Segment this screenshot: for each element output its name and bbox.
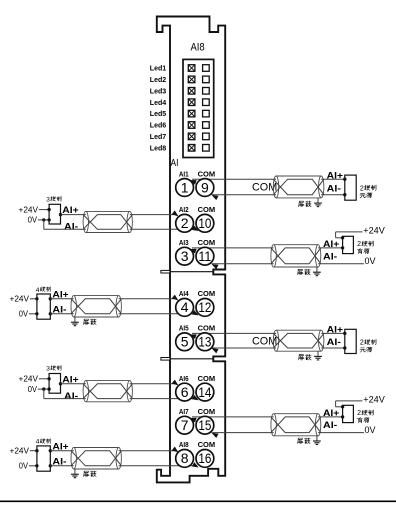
svg-text:4: 4 — [36, 439, 40, 446]
svg-text:0V: 0V — [19, 308, 28, 318]
svg-text:13: 13 — [198, 334, 211, 350]
wire terminal 9 to sensor — [212, 194, 345, 196]
wire terminal 3 to sensor AI+ — [192, 247, 343, 249]
arrowhead terminal 5 — [189, 332, 196, 339]
arrowhead terminal 4 — [172, 295, 180, 303]
svg-text:10: 10 — [198, 215, 211, 231]
AI3 cable shielded twisted-pair cable symbol — [271, 245, 321, 267]
svg-text:Led2: Led2 — [150, 75, 166, 84]
svg-text:Led8: Led8 — [150, 143, 166, 152]
svg-text:0V: 0V — [28, 215, 37, 225]
arrow into terminal 12 — [192, 310, 200, 317]
label 屏蔽 — [299, 201, 304, 206]
wire AI+ to terminal 4 — [50, 298, 175, 300]
svg-text:AI+: AI+ — [327, 325, 344, 336]
wire AI- to terminal 14 — [44, 389, 196, 399]
label 4线制 — [36, 439, 51, 446]
svg-text:AI-: AI- — [64, 222, 78, 233]
svg-text:2: 2 — [357, 410, 361, 417]
svg-text:AI1: AI1 — [179, 169, 189, 178]
shield ground AI5 — [314, 351, 322, 360]
terminal 8 — [176, 450, 194, 468]
svg-text:AI5: AI5 — [179, 324, 189, 333]
arrow into terminal 5 — [189, 332, 196, 339]
wire AI- to terminal 10 — [44, 220, 196, 229]
svg-text:AI-: AI- — [323, 251, 337, 262]
wire COM terminal 5 to sensor — [192, 332, 345, 334]
2-wire passive sensor block AI5 — [343, 329, 356, 353]
svg-text:AI+: AI+ — [323, 408, 340, 419]
terminal 13 — [196, 333, 214, 351]
wire AI+ to terminal 8 — [50, 450, 175, 452]
LED3 indicator squares — [188, 88, 209, 95]
svg-text:6: 6 — [181, 384, 189, 400]
arrowhead terminal 9 — [211, 193, 219, 200]
LED2 indicator squares — [188, 76, 209, 83]
svg-text:Led5: Led5 — [150, 109, 166, 118]
AI2 cable shielded twisted-pair cable symbol — [83, 211, 132, 232]
svg-text:Led1: Led1 — [150, 64, 166, 73]
svg-text:3: 3 — [46, 366, 50, 373]
4-wire transmitter block for AI8 — [10, 445, 53, 471]
arrowhead terminal 7 — [189, 416, 196, 423]
arrowhead terminal 3 — [189, 247, 196, 254]
AI8 cable shielded twisted-pair cable symbol — [71, 447, 121, 469]
svg-text:+24V: +24V — [19, 204, 39, 214]
svg-text:AI+: AI+ — [327, 170, 344, 181]
terminal 11 — [196, 247, 214, 265]
shield ground AI7 — [313, 436, 321, 445]
section divider 1 — [161, 270, 213, 273]
svg-text:AI8: AI8 — [191, 41, 205, 53]
svg-text:AI-: AI- — [327, 184, 341, 195]
LED6 indicator squares — [188, 122, 209, 129]
arrow into terminal 6 — [172, 380, 180, 388]
terminal 5 — [176, 333, 194, 351]
svg-text:AI+: AI+ — [323, 239, 340, 250]
shield ground AI8 — [71, 469, 79, 478]
arrow into terminal 11 — [211, 262, 219, 269]
label 3线制 — [46, 366, 61, 373]
shield ground AI4 — [71, 317, 79, 326]
AI1 cable shielded twisted-pair cable symbol — [273, 176, 324, 198]
svg-text:AI3: AI3 — [179, 238, 189, 247]
arrowhead terminal 13 — [211, 346, 219, 353]
arrow into terminal 13 — [211, 346, 219, 353]
arrow into terminal 8 — [172, 447, 180, 455]
label 3线制 — [46, 196, 61, 203]
arrow into terminal 3 — [189, 247, 196, 254]
svg-text:+24V: +24V — [10, 445, 30, 455]
arrow into terminal 16 — [192, 462, 200, 469]
label 屏蔽 — [298, 269, 303, 274]
arrowhead terminal 10 — [192, 226, 200, 233]
terminal 14 — [196, 383, 214, 401]
arrowhead terminal 1 — [189, 178, 196, 185]
arrow into terminal 14 — [192, 395, 200, 402]
svg-text:Led4: Led4 — [150, 98, 167, 107]
svg-text:4: 4 — [181, 299, 189, 315]
wire terminal 11 to 0V — [212, 263, 365, 265]
arrow into terminal 4 — [172, 295, 180, 303]
svg-text:5: 5 — [181, 334, 189, 350]
arrowhead terminal 11 — [211, 262, 219, 269]
wire AI+ to terminal 6 — [61, 383, 176, 385]
wire COM terminal 1 to sensor — [192, 178, 345, 180]
arrow into terminal 9 — [211, 193, 219, 200]
wire terminal 7 to sensor AI+ — [192, 416, 343, 418]
wire AI- to terminal 16 — [50, 465, 195, 467]
arrowhead terminal 15 — [211, 431, 219, 438]
4-wire transmitter block for AI4 — [10, 293, 53, 319]
svg-text:+24V: +24V — [10, 293, 30, 303]
svg-text:2: 2 — [360, 185, 364, 192]
svg-text:12: 12 — [198, 299, 211, 315]
arrowhead terminal 16 — [192, 462, 200, 469]
AI7 cable shielded twisted-pair cable symbol — [271, 414, 321, 436]
svg-text:+24V: +24V — [19, 374, 39, 384]
svg-text:COM: COM — [198, 324, 216, 333]
label 屏蔽 — [299, 355, 304, 360]
arrow into terminal 7 — [189, 416, 196, 423]
svg-text:COM: COM — [198, 440, 216, 449]
svg-text:3: 3 — [46, 196, 50, 203]
svg-text:0V: 0V — [365, 425, 376, 435]
label 2线制 无源 — [360, 339, 376, 352]
terminal 15 — [196, 416, 214, 434]
terminal 10 — [196, 214, 214, 232]
page footer rule — [0, 500, 396, 502]
svg-text:Led3: Led3 — [150, 86, 166, 95]
label 4线制 — [36, 287, 51, 294]
svg-text:11: 11 — [198, 248, 211, 264]
svg-text:AI-: AI- — [327, 337, 341, 348]
LED8 indicator squares — [188, 145, 209, 152]
3-wire transmitter block for AI6 — [19, 374, 63, 394]
wire terminal 15 to 0V — [212, 432, 365, 434]
arrowhead terminal 2 — [172, 211, 180, 219]
svg-text:+24V: +24V — [363, 225, 385, 235]
arrow into terminal 15 — [211, 431, 219, 438]
+24V feed wire AI3 — [336, 232, 363, 238]
svg-text:9: 9 — [201, 179, 209, 195]
svg-text:AI2: AI2 — [179, 205, 189, 214]
2-wire active sensor block AI3 — [341, 236, 354, 254]
3-wire transmitter block for AI2 — [19, 204, 63, 224]
svg-text:AI4: AI4 — [179, 289, 189, 298]
terminal 16 — [196, 450, 214, 468]
terminal 9 — [196, 179, 214, 197]
LED4 indicator squares — [188, 99, 209, 106]
svg-text:COM: COM — [198, 407, 216, 416]
arrowhead terminal 12 — [192, 310, 200, 317]
label 屏蔽 — [84, 471, 89, 476]
label 2线制 无源 — [360, 185, 376, 198]
svg-text:2: 2 — [360, 340, 364, 347]
shield ground AI3 — [313, 267, 321, 276]
shield ground AI1 — [314, 198, 322, 207]
LED indicator box — [183, 59, 214, 157]
terminal 6 — [176, 383, 194, 401]
svg-text:7: 7 — [181, 417, 189, 433]
section divider 2 — [161, 358, 213, 361]
LED7 indicator squares — [188, 133, 209, 140]
module AI8 body outline — [157, 17, 225, 483]
terminal 12 — [196, 299, 214, 317]
svg-text:Led7: Led7 — [150, 132, 166, 141]
arrow into terminal 10 — [192, 226, 200, 233]
LED5 indicator squares — [188, 110, 209, 117]
arrow into terminal 2 — [172, 211, 180, 219]
svg-text:2: 2 — [357, 241, 361, 248]
arrow into terminal 1 — [189, 178, 196, 185]
2-wire passive sensor block AI1 — [343, 175, 356, 200]
label 2线制 有源 — [357, 241, 373, 254]
svg-text:AI-: AI- — [323, 420, 337, 431]
arrowhead terminal 6 — [172, 380, 180, 388]
svg-text:14: 14 — [198, 384, 211, 400]
LED1 indicator squares — [188, 65, 209, 72]
label 2线制 有源 — [357, 410, 373, 423]
svg-text:15: 15 — [198, 417, 211, 433]
AI5 cable shielded twisted-pair cable symbol — [273, 330, 324, 351]
terminal 2 — [176, 214, 194, 232]
terminal 4 — [176, 299, 194, 317]
svg-text:4: 4 — [36, 287, 40, 294]
svg-text:COM: COM — [198, 289, 216, 298]
svg-text:COM: COM — [198, 205, 216, 214]
svg-text:AI8: AI8 — [179, 440, 189, 449]
svg-text:AI6: AI6 — [179, 374, 189, 383]
arrowhead terminal 8 — [172, 447, 180, 455]
svg-text:AI-: AI- — [64, 391, 78, 402]
svg-text:0V: 0V — [28, 384, 37, 394]
svg-text:COM: COM — [198, 169, 216, 178]
terminal 3 — [176, 247, 194, 265]
wire terminal 13 to sensor — [212, 347, 345, 349]
terminal 7 — [176, 416, 194, 434]
svg-text:COM: COM — [198, 374, 216, 383]
svg-text:0V: 0V — [365, 256, 376, 266]
svg-text:2: 2 — [181, 215, 189, 231]
label 屏蔽 — [84, 319, 89, 324]
label 屏蔽 — [298, 438, 303, 443]
svg-text:COM: COM — [198, 238, 216, 247]
svg-text:16: 16 — [198, 450, 211, 466]
terminal 1 — [176, 179, 194, 197]
svg-text:Led6: Led6 — [150, 121, 166, 130]
svg-text:0V: 0V — [19, 460, 28, 470]
+24V feed wire AI7 — [336, 401, 363, 407]
wire AI+ to terminal 2 — [61, 214, 176, 216]
svg-text:8: 8 — [181, 450, 189, 466]
AI4 cable shielded twisted-pair cable symbol — [71, 296, 121, 317]
wire AI- to terminal 12 — [50, 313, 195, 315]
svg-text:1: 1 — [181, 179, 189, 195]
arrowhead terminal 14 — [192, 395, 200, 402]
svg-text:+24V: +24V — [363, 394, 385, 404]
svg-text:AI: AI — [171, 158, 179, 169]
AI6 cable shielded twisted-pair cable symbol — [83, 381, 132, 402]
svg-text:3: 3 — [181, 248, 189, 264]
2-wire active sensor block AI7 — [341, 405, 354, 423]
svg-text:AI7: AI7 — [179, 407, 189, 416]
